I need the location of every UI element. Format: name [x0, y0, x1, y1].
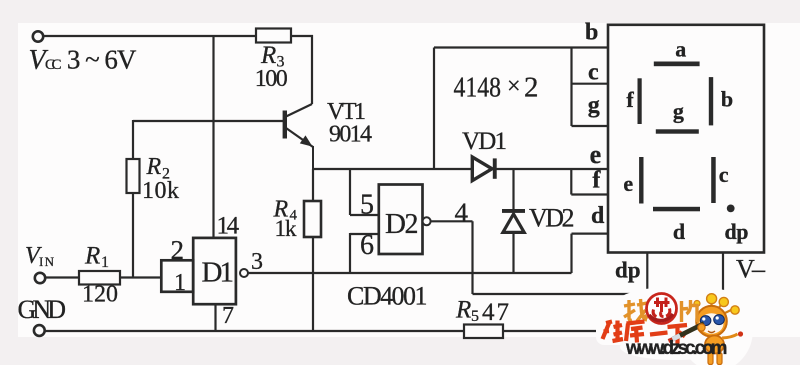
svg-text:CD4001: CD4001 — [347, 281, 428, 310]
svg-text:5: 5 — [360, 190, 374, 221]
svg-text:d: d — [673, 219, 685, 244]
svg-text:a: a — [675, 37, 686, 62]
svg-text:4148: 4148 — [454, 72, 502, 104]
svg-text:e: e — [590, 140, 602, 169]
svg-text:GND: GND — [18, 295, 67, 324]
svg-text:4: 4 — [455, 198, 469, 228]
svg-text:www.dzsc.com: www.dzsc.com — [625, 338, 728, 359]
svg-text:3 ~ 6V: 3 ~ 6V — [67, 44, 137, 74]
svg-text:e: e — [623, 171, 633, 196]
svg-text:D: D — [385, 208, 406, 240]
svg-text:d: d — [591, 203, 605, 229]
svg-text:×: × — [507, 74, 521, 100]
svg-text:f: f — [626, 87, 634, 112]
svg-text:R: R — [455, 297, 471, 324]
svg-text:R: R — [84, 243, 100, 270]
svg-text:7: 7 — [222, 303, 234, 329]
svg-text:1: 1 — [174, 270, 186, 296]
svg-text:dp: dp — [725, 219, 749, 244]
svg-text:f: f — [592, 168, 601, 194]
svg-text:IN: IN — [39, 254, 55, 269]
svg-text:3: 3 — [251, 249, 263, 275]
svg-text:10k: 10k — [142, 178, 179, 204]
svg-text:5: 5 — [471, 308, 479, 325]
svg-text:100: 100 — [255, 66, 288, 92]
svg-text:R: R — [146, 154, 162, 180]
svg-text:dp: dp — [615, 257, 641, 282]
svg-text:c: c — [719, 162, 729, 187]
svg-text:14: 14 — [217, 212, 240, 239]
svg-text:R: R — [260, 42, 276, 69]
svg-text:b: b — [721, 86, 733, 111]
svg-text:1: 1 — [220, 257, 235, 289]
svg-text:CC: CC — [45, 57, 62, 73]
svg-text:120: 120 — [82, 282, 118, 308]
svg-text:9014: 9014 — [329, 122, 372, 148]
svg-text:V –: V – — [736, 255, 766, 284]
svg-text:g: g — [673, 99, 684, 124]
svg-text:1: 1 — [101, 254, 109, 271]
svg-text:g: g — [588, 93, 600, 119]
svg-text:b: b — [585, 19, 598, 45]
svg-text:2: 2 — [171, 235, 185, 265]
svg-text:2: 2 — [405, 209, 419, 240]
svg-text:6: 6 — [360, 230, 374, 261]
svg-text:VD2: VD2 — [529, 203, 575, 232]
svg-text:VD1: VD1 — [462, 128, 507, 155]
svg-text:1k: 1k — [275, 216, 298, 241]
svg-text:c: c — [588, 59, 599, 85]
svg-text:2: 2 — [524, 72, 539, 104]
